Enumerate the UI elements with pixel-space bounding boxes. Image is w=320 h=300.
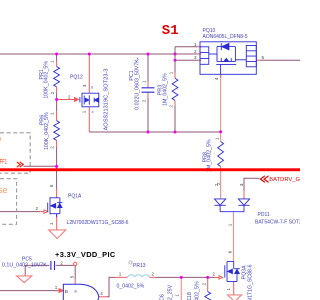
wire gate output net [107, 277, 215, 296]
resistor PR13 zero ohm arcs [128, 275, 150, 278]
resistor PR8 [218, 142, 224, 167]
svg-text:B: B [75, 289, 78, 293]
svg-text:2: 2 [213, 272, 216, 277]
wire PR8 column red [220, 132, 222, 199]
svg-text:3: 3 [194, 55, 197, 60]
transistor PQ3A [225, 261, 240, 281]
wire PC6 drop [180, 277, 182, 300]
pin numbers rotated [49, 60, 244, 297]
svg-text:PQ3A: PQ3A [241, 265, 247, 279]
svg-text:10K_0402_5%: 10K_0402_5% [194, 281, 200, 300]
capacitor PC1 [142, 88, 155, 92]
resistor PR118 partial [205, 292, 211, 300]
svg-text:5: 5 [262, 55, 265, 60]
svg-text:1: 1 [55, 285, 58, 290]
svg-text:3: 3 [82, 84, 87, 87]
svg-text:2: 2 [152, 271, 155, 276]
svg-text:S: S [91, 86, 93, 90]
svg-text:AOSS21319C_SOT23-3: AOSS21319C_SOT23-3 [103, 69, 109, 131]
svg-text:1: 1 [49, 222, 54, 225]
wire PC5 left [25, 265, 49, 275]
svg-text:2: 2 [141, 99, 146, 102]
svg-text:PD11: PD11 [258, 212, 270, 218]
svg-text:1: 1 [228, 223, 233, 226]
wire PQ10 pin1 [175, 46, 198, 48]
wire gate B input [0, 290, 58, 292]
svg-text:4: 4 [214, 77, 219, 80]
net S1 highlighted thick [0, 168, 300, 171]
port chevron BATDRV [260, 176, 268, 183]
label PR6 [40, 112, 50, 150]
label PR1 [39, 61, 50, 99]
capacitor PC5 [51, 261, 55, 270]
svg-text:1M_0402_5%: 1M_0402_5% [162, 73, 168, 106]
svg-text:1: 1 [215, 137, 220, 140]
svg-text:PC6: PC6 [160, 294, 166, 300]
arrow into gate B input [58, 289, 64, 293]
label PC6 [160, 284, 174, 300]
ground under PQ1A [49, 230, 66, 239]
svg-text:PR118: PR118 [187, 292, 193, 300]
resistor PR6 [54, 121, 60, 141]
svg-text:0.1U_0402_10V7K: 0.1U_0402_10V7K [2, 262, 47, 268]
svg-text:0.022U_0603_50V7K: 0.022U_0603_50V7K [134, 59, 140, 110]
svg-text:2: 2 [36, 206, 39, 211]
svg-text:S1: S1 [162, 23, 179, 39]
label PR118 [187, 281, 201, 300]
svg-text:+3.3V_VDD_PIC: +3.3V_VDD_PIC [55, 250, 116, 259]
label PR3 [158, 73, 169, 106]
wire vertical x175 [174, 47, 176, 132]
svg-text:se: se [0, 185, 8, 195]
wire PQ10 pin3 [175, 59, 198, 61]
svg-text:1: 1 [50, 60, 55, 63]
svg-text:1: 1 [82, 110, 87, 113]
svg-text:PQ12: PQ12 [70, 75, 83, 81]
svg-text:1: 1 [194, 42, 197, 47]
svg-text:1: 1 [174, 294, 179, 297]
wire PC5 right [56, 264, 74, 266]
svg-text:0.1U_0402_25V: 0.1U_0402_25V [168, 284, 174, 300]
diode PD11 left [215, 199, 226, 212]
svg-text:1M_0402_5%: 1M_0402_5% [206, 139, 212, 172]
svg-text:100K_0402_5%: 100K_0402_5% [44, 61, 50, 99]
svg-text:1: 1 [119, 271, 122, 276]
port chevron FF1 [17, 162, 23, 167]
wire PD11 center drop [233, 212, 235, 262]
svg-text:B: B [65, 289, 68, 295]
wire PQ10 pin4 drop red [220, 74, 222, 132]
svg-text:2: 2 [168, 105, 173, 108]
wire power drop [74, 266, 76, 279]
label PC1 [129, 59, 140, 110]
wire mid horizontal [89, 131, 220, 133]
svg-text:2: 2 [68, 94, 71, 99]
wire PQ10 pin5 out [260, 59, 300, 61]
power symbol circle [74, 262, 77, 265]
svg-text:BATDRV_GA: BATDRV_GA [269, 177, 300, 183]
wire FF1 [24, 165, 57, 167]
svg-text:AON6405L_DFN8-5: AON6405L_DFN8-5 [203, 34, 248, 40]
svg-text:0_0402_5%: 0_0402_5% [117, 284, 145, 290]
dashed box B [0, 179, 17, 225]
svg-text:1: 1 [141, 80, 146, 83]
svg-text:BAT54CW-7-F SOT23-6: BAT54CW-7-F SOT23-6 [255, 220, 300, 226]
wire PQ1A gate [0, 211, 40, 213]
dashed box A [0, 133, 30, 173]
svg-text:5: 5 [70, 275, 75, 278]
svg-text:@: @ [128, 260, 133, 265]
transistor PQ10 [200, 42, 256, 75]
wire top rail [0, 53, 198, 55]
wire BATDRV [244, 178, 260, 190]
wire PD11 cathode rail [220, 211, 244, 213]
wire PR118 drop [207, 277, 209, 291]
svg-text:PQ1A: PQ1A [68, 193, 82, 199]
svg-text:6: 6 [228, 250, 233, 253]
transistor PQ12 [80, 93, 99, 107]
svg-text:e: e [0, 133, 2, 143]
resistor PR3 [172, 78, 178, 100]
svg-text:2: 2 [194, 49, 197, 54]
svg-text:x: x [137, 55, 139, 60]
svg-text:100K_0402_5%: 100K_0402_5% [44, 112, 50, 150]
wire PC1 column [147, 54, 149, 132]
arrow into PQ12 gate [57, 98, 79, 102]
pin stubs red assorted [40, 47, 260, 297]
transistor PQ1A [48, 197, 63, 217]
svg-text:1: 1 [50, 112, 55, 115]
pin numbers horizontal [36, 42, 265, 296]
svg-text:1: 1 [168, 71, 173, 74]
svg-text:d: d [92, 110, 94, 114]
svg-text:PR13: PR13 [133, 263, 146, 269]
svg-text:2: 2 [201, 282, 206, 285]
svg-text:L2N7002DW1T1G_SC88-6: L2N7002DW1T1G_SC88-6 [247, 264, 253, 300]
ground under PQ3A [228, 295, 242, 300]
svg-text:L2N7002DW1T1G_SC88-6: L2N7002DW1T1G_SC88-6 [67, 220, 129, 226]
resistor PR1 [54, 67, 60, 87]
svg-text:FF1: FF1 [0, 159, 7, 166]
svg-text:2: 2 [216, 182, 221, 185]
gate U-B body [63, 284, 99, 300]
ground under PC5 [17, 276, 32, 283]
label PR8 [202, 139, 212, 172]
svg-text:2: 2 [60, 260, 63, 265]
svg-text:4: 4 [100, 291, 103, 296]
svg-text:6: 6 [49, 184, 54, 187]
diode PD11 right [238, 199, 249, 212]
svg-text:3: 3 [239, 183, 244, 186]
svg-text:2: 2 [50, 146, 55, 149]
wire PR1 PR6 column [56, 54, 58, 189]
wire PD11 right anode red [243, 190, 245, 199]
svg-text:2: 2 [50, 91, 55, 94]
svg-text:1: 1 [226, 287, 231, 290]
